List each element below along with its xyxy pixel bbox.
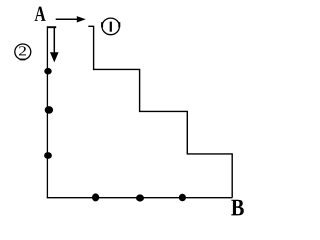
bottom horizontal line (path 2 rightward leg) bbox=[47, 197, 232, 199]
top-left corner stub at A bbox=[47, 26, 56, 28]
dot 5 on bottom line bbox=[136, 194, 144, 201]
circled label 2 bbox=[15, 44, 31, 60]
left vertical line (path 2 downward leg) bbox=[46, 26, 48, 198]
staircase outline (path 1: steps down to B) bbox=[88, 26, 232, 197]
dot 6 on bottom line bbox=[179, 194, 186, 202]
point label A bbox=[35, 7, 46, 21]
point label B bbox=[231, 200, 244, 216]
dot 1 on left line bbox=[44, 68, 51, 75]
arrow 1 (horizontal, path 1 direction) bbox=[56, 16, 86, 22]
arrow 2 (vertical, path 2 direction) bbox=[50, 28, 59, 63]
dot 2 on left line bbox=[45, 106, 53, 114]
dot 3 on left line bbox=[44, 152, 52, 159]
dot 4 on bottom line bbox=[92, 193, 99, 201]
circled label 1 bbox=[101, 18, 120, 35]
